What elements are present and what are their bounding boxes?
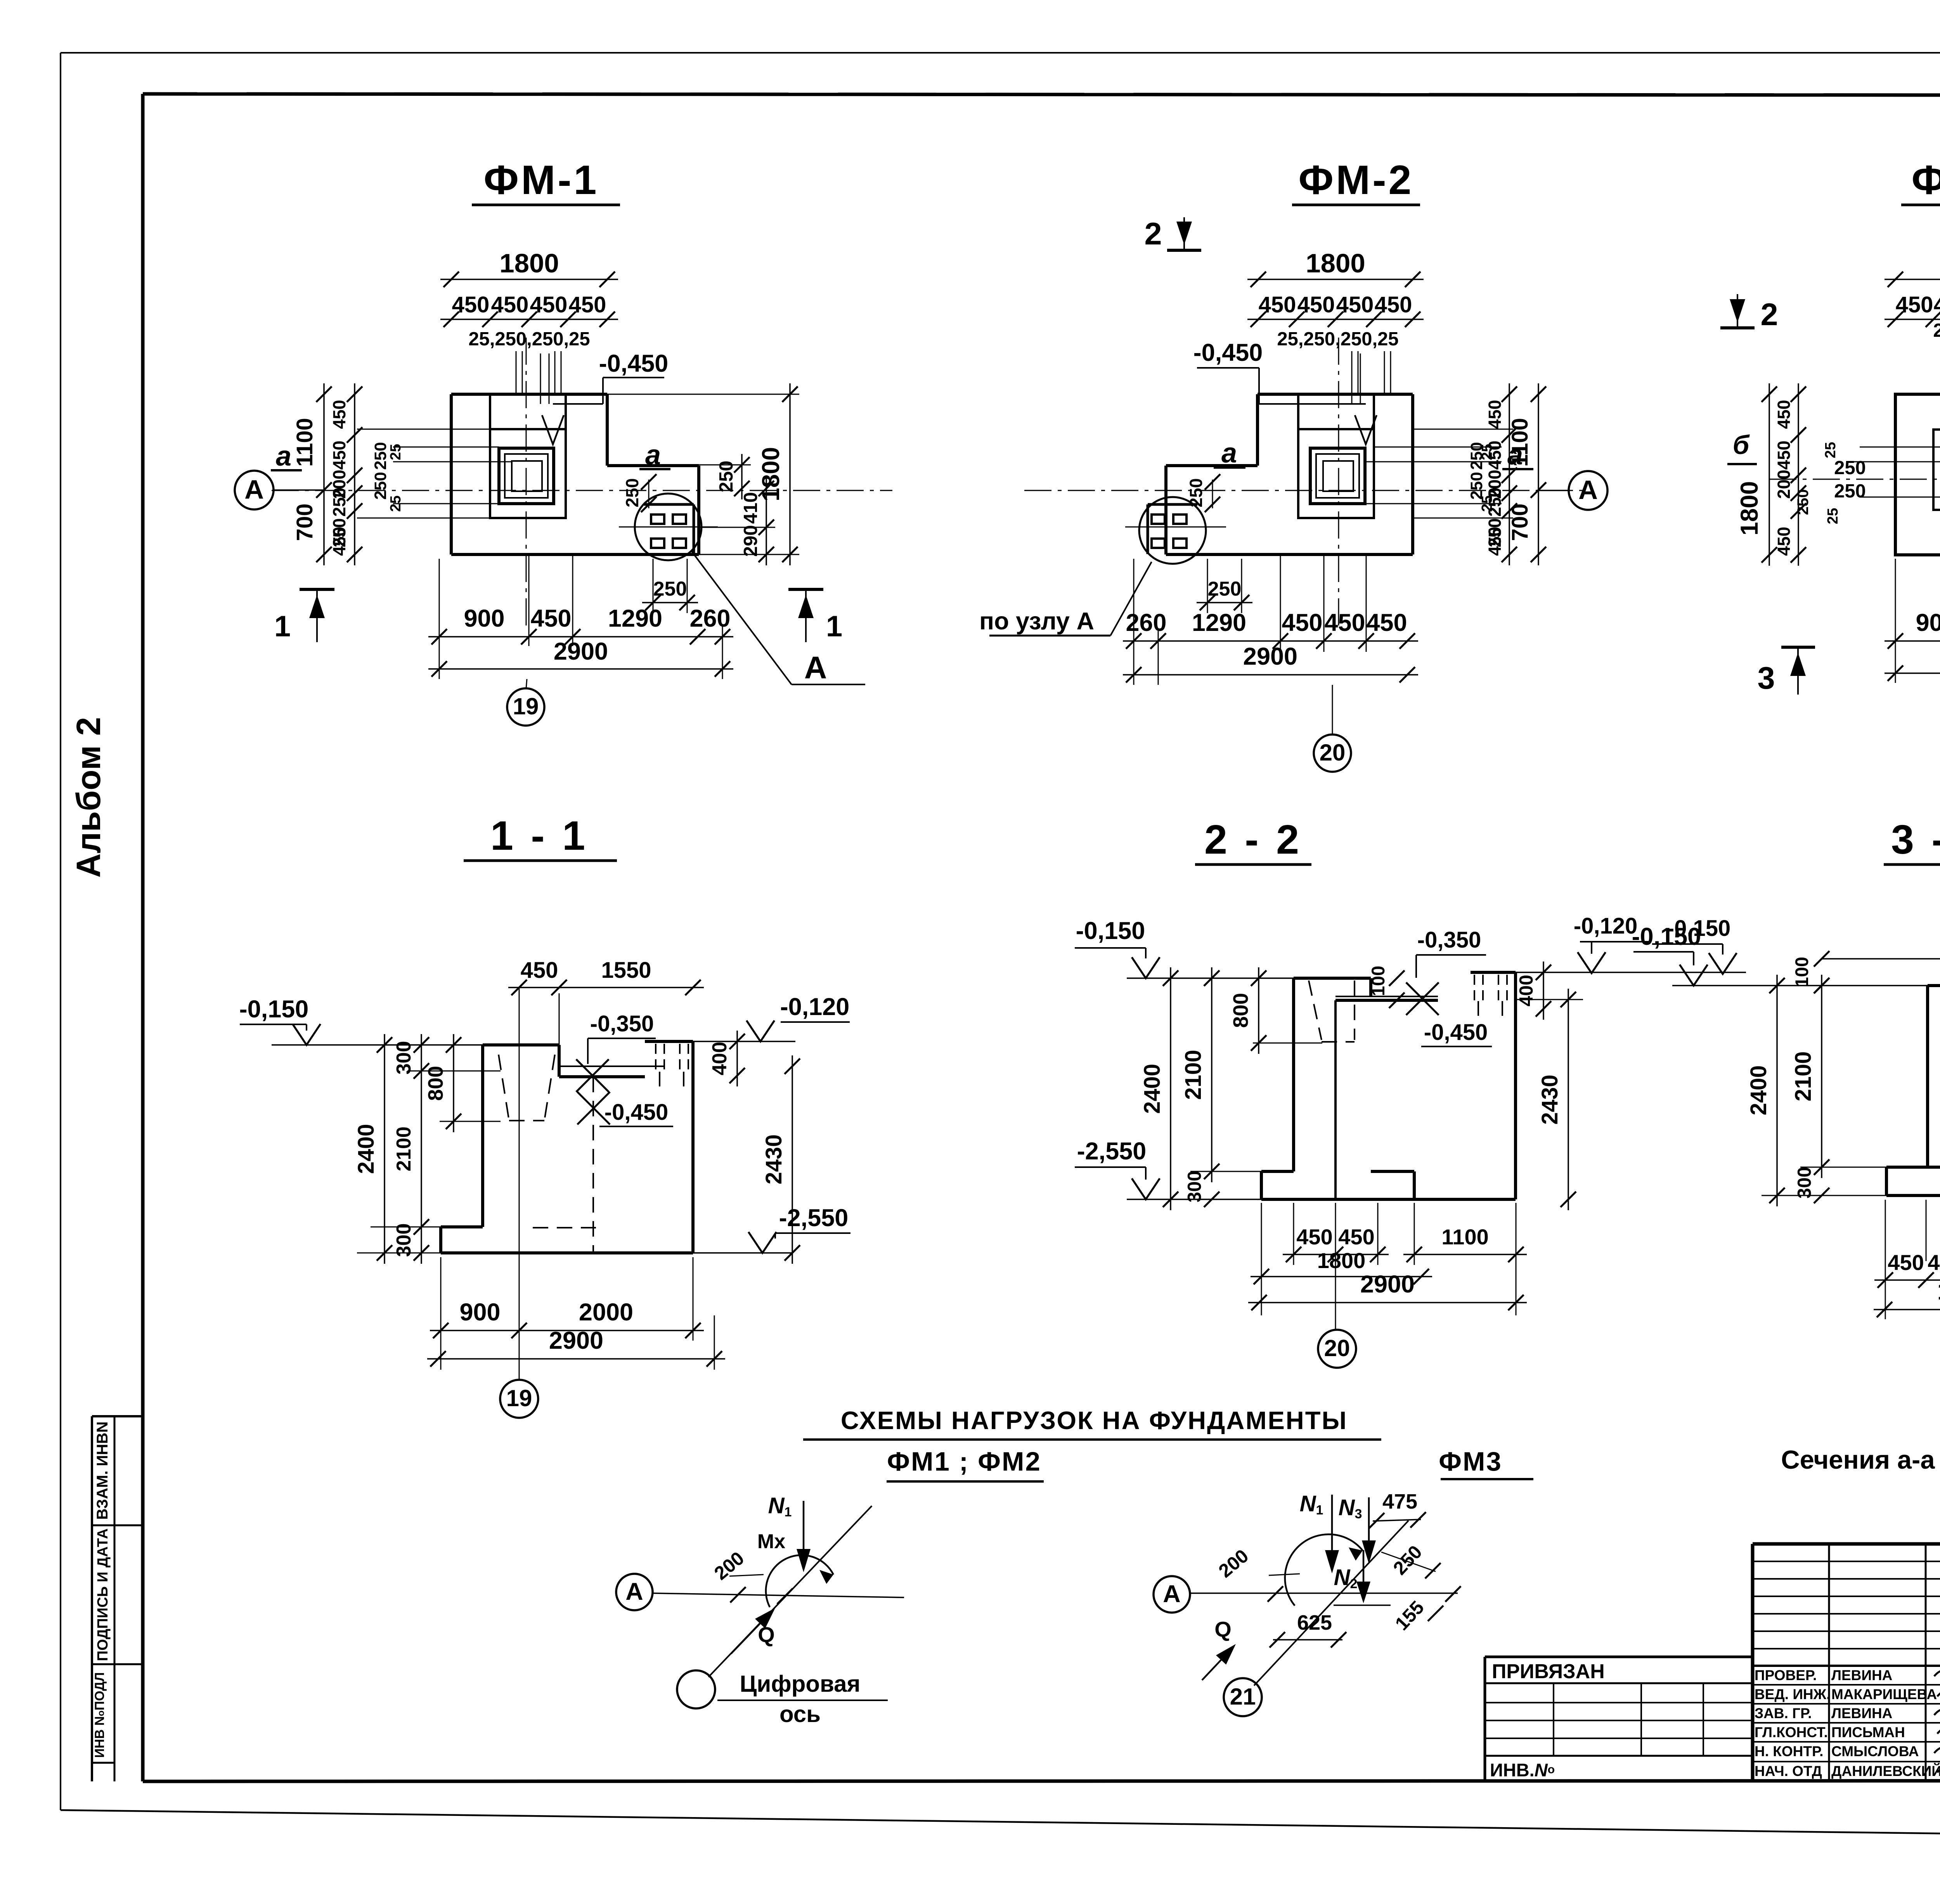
FM-1 axis dash-dot horizontal <box>272 490 892 491</box>
scheme1 digital axis label <box>717 1671 888 1727</box>
svg-text:450: 450 <box>1774 400 1794 429</box>
FM-2 right dim 1100-700 <box>1507 383 1546 565</box>
FM-2 bottom small dim 250 <box>1197 559 1252 613</box>
scheme2 axis circle A <box>1154 1576 1190 1613</box>
svg-text:100: 100 <box>1368 966 1388 996</box>
svg-text:1: 1 <box>826 610 842 643</box>
FM-3 left dim column <box>1774 383 1812 566</box>
svg-text:2100: 2100 <box>1791 1051 1816 1101</box>
svg-text:290: 290 <box>740 525 761 557</box>
FM-3 bottom dim row1 <box>1885 609 1940 649</box>
svg-text:900: 900 <box>459 1299 500 1326</box>
svg-text:25,250,250: 25,250,250 <box>1933 320 1940 341</box>
svg-text:625: 625 <box>1297 1611 1332 1634</box>
svg-text:21: 21 <box>1230 1684 1256 1710</box>
FM-2 section label a left <box>1214 438 1245 469</box>
svg-text:450: 450 <box>1888 1250 1924 1275</box>
FM-1 uzel A dim 250 <box>622 474 656 512</box>
svg-text:250: 250 <box>653 578 687 600</box>
FM-3 top small dims <box>1933 320 1940 394</box>
svg-text:25,250,250,25: 25,250,250,25 <box>1277 329 1398 350</box>
svg-text:N2: N2 <box>1334 1565 1358 1591</box>
svg-text:250: 250 <box>1794 489 1812 515</box>
svg-text:300: 300 <box>393 1041 415 1075</box>
svg-text:25: 25 <box>388 444 404 460</box>
section 2-2 left dims <box>1140 967 1322 1210</box>
FM-2 right small dims <box>1467 442 1495 512</box>
scheme1 force N1 <box>768 1493 811 1572</box>
svg-text:ЗАВ. ГР.: ЗАВ. ГР. <box>1755 1705 1812 1721</box>
svg-text:1800: 1800 <box>1317 1248 1366 1273</box>
svg-text:ИНВ NoПОДЛ: ИНВ NoПОДЛ <box>92 1672 107 1758</box>
svg-text:250: 250 <box>329 487 349 516</box>
svg-text:450: 450 <box>1324 609 1365 636</box>
svg-text:2900: 2900 <box>1360 1271 1415 1298</box>
FM-3 left mid dims <box>1822 442 1866 524</box>
scheme2 aux line <box>1334 1604 1391 1606</box>
section 2-2 stem outline <box>1294 978 1371 1171</box>
scheme2 force N3 <box>1339 1495 1376 1564</box>
section 2-2 dim 400 right <box>1516 962 1551 1020</box>
svg-text:450: 450 <box>1928 1250 1940 1275</box>
svg-text:800: 800 <box>1229 993 1252 1028</box>
svg-text:2430: 2430 <box>761 1134 786 1184</box>
scheme2 force Q <box>1202 1617 1236 1680</box>
stamp strip labels <box>92 1421 111 1758</box>
privyazan labels <box>1490 1660 1605 1780</box>
svg-text:ЛЕВИНА: ЛЕВИНА <box>1831 1667 1892 1683</box>
svg-text:450: 450 <box>1375 292 1412 317</box>
svg-text:-0,450: -0,450 <box>599 350 669 377</box>
FM-1 uzel A sockets <box>619 504 718 554</box>
load scheme FM3 subtitle <box>1439 1447 1533 1479</box>
section 3-3 left dims <box>1746 975 1928 1206</box>
FM-1 top dim 1800 <box>440 248 618 287</box>
section 2-2 axis circle 20 <box>1318 1203 1356 1368</box>
svg-text:СМЫСЛОВА: СМЫСЛОВА <box>1831 1743 1919 1759</box>
svg-text:475: 475 <box>1382 1490 1417 1513</box>
section 1-1 left dims <box>353 1034 501 1264</box>
svg-text:а: а <box>645 440 661 471</box>
FM-2 level mark -0.450 <box>1193 339 1377 444</box>
svg-text:450: 450 <box>1485 400 1505 429</box>
title block outer <box>1753 1544 1940 1781</box>
FM-2 right dim column <box>1485 383 1517 565</box>
FM-3 bottom dim row2 <box>1885 641 1940 681</box>
FM-3 bottom ext lines <box>1895 555 1940 683</box>
section 2-2 top right slab <box>1471 972 1516 1016</box>
svg-text:2: 2 <box>1144 217 1162 251</box>
FM-1 plan outline <box>451 394 699 554</box>
FM-1 section marker 1 left <box>274 589 334 643</box>
section 3-3 level -0.150 <box>1632 923 1928 986</box>
svg-text:100: 100 <box>1791 957 1812 987</box>
svg-text:1100: 1100 <box>1441 1225 1489 1249</box>
section 1-1 pit floor <box>559 1066 665 1077</box>
svg-text:1: 1 <box>274 610 291 643</box>
section 2-2 footing <box>1261 1171 1516 1199</box>
FM-1 left small dims <box>371 442 404 512</box>
svg-text:2100: 2100 <box>1181 1050 1206 1100</box>
section 2-2 level -2.550 <box>1075 1138 1261 1199</box>
svg-text:900: 900 <box>464 605 504 632</box>
svg-text:А: А <box>804 650 827 685</box>
FM-3 middle step rectangle <box>1933 430 1940 510</box>
svg-text:ФМ3: ФМ3 <box>1439 1447 1502 1476</box>
svg-text:3 - 3: 3 - 3 <box>1891 817 1940 863</box>
svg-text:300: 300 <box>393 1223 415 1257</box>
FM-1 right dim 1800 <box>757 383 798 565</box>
left stamp strip boxes <box>92 1416 142 1781</box>
svg-text:200: 200 <box>1774 470 1794 499</box>
FM-2 uzel A circle <box>1139 497 1206 564</box>
svg-text:25: 25 <box>1479 495 1495 512</box>
scheme1 dim 200 <box>710 1548 793 1604</box>
section 2-2 level -0.120 right <box>1574 913 1649 973</box>
section 1-1 right wall <box>691 1041 695 1253</box>
section 1-1 level -0.450 <box>577 1092 673 1126</box>
svg-text:-0,450: -0,450 <box>1424 1020 1488 1045</box>
section 2-2 level -0.150 left <box>1075 917 1294 978</box>
svg-text:450: 450 <box>1297 292 1335 317</box>
svg-text:450: 450 <box>1296 1225 1332 1249</box>
section 2-2 dim 100 <box>1368 966 1405 1008</box>
svg-text:ФМ1 ; ФМ2: ФМ1 ; ФМ2 <box>887 1447 1041 1476</box>
svg-text:20: 20 <box>1324 1335 1350 1361</box>
FM-2 axis circle A right <box>1536 471 1607 510</box>
svg-text:А: А <box>1163 1580 1181 1608</box>
svg-text:25: 25 <box>388 495 404 512</box>
svg-text:А: А <box>1578 475 1598 505</box>
FM-2 column axis vertical <box>1338 338 1339 629</box>
section 2-2 level -0.150 right <box>1516 916 1746 974</box>
FM-1 left dim column <box>329 383 362 565</box>
section 3-3 footing <box>1886 1167 1940 1195</box>
section 1-1 dashed stakan <box>499 1055 555 1121</box>
FM-1 right dim 250 <box>716 454 750 499</box>
svg-text:1290: 1290 <box>1192 609 1246 636</box>
svg-text:2900: 2900 <box>554 638 608 665</box>
svg-text:ЛЕВИНА: ЛЕВИНА <box>1831 1705 1892 1721</box>
load schemes main title <box>803 1406 1381 1440</box>
svg-text:200: 200 <box>710 1548 748 1584</box>
svg-text:-0,150: -0,150 <box>1632 923 1701 950</box>
FM-3 axis dash-dot horizontal <box>1769 479 1940 480</box>
section 2-2 dashed stakan <box>1309 981 1355 1042</box>
svg-text:-0,120: -0,120 <box>1574 913 1637 939</box>
FM-1 uzel A circle <box>635 494 702 560</box>
FM-1 column axis vertical <box>526 338 527 629</box>
FM-3 left dim 1800 <box>1736 383 1777 566</box>
FM-1 bottom ext lines <box>439 554 722 679</box>
section 2-2 level -0.350 <box>1406 927 1486 1015</box>
svg-text:25: 25 <box>1825 508 1841 524</box>
svg-text:3: 3 <box>1757 661 1775 696</box>
FM-2 bottom ext lines <box>1134 554 1366 685</box>
FM-2 uzel dim 250 <box>1186 474 1220 512</box>
svg-text:Цифровая: Цифровая <box>740 1671 861 1697</box>
svg-text:450: 450 <box>491 292 529 317</box>
svg-text:20: 20 <box>1320 740 1346 766</box>
svg-text:Альбом 2: Альбом 2 <box>70 717 107 878</box>
scheme1 axis circle A <box>616 1574 653 1610</box>
svg-text:2430: 2430 <box>1537 1074 1562 1124</box>
svg-text:Мх: Мх <box>757 1530 785 1553</box>
svg-text:450: 450 <box>1366 609 1407 636</box>
scheme1 force Q <box>731 1608 775 1654</box>
section 1-1 bottom dims <box>427 1257 725 1370</box>
section 1-1 top right slab <box>645 1041 693 1086</box>
svg-text:-0,350: -0,350 <box>1417 927 1481 953</box>
scheme1 moment Mx <box>757 1530 833 1607</box>
svg-text:400: 400 <box>1516 975 1537 1007</box>
title block person names <box>1755 1667 1940 1779</box>
FM-3 section marker 3 left <box>1757 647 1815 696</box>
FM-3 top dim 1800 <box>1885 248 1940 287</box>
FM-1 right dim 410-290 <box>740 478 774 565</box>
svg-text:2400: 2400 <box>353 1124 379 1174</box>
scheme2 axis circle 21 <box>1224 1678 1262 1716</box>
FM-1 uzel A leader and label <box>691 551 865 685</box>
svg-text:450: 450 <box>452 292 490 317</box>
svg-text:200: 200 <box>1215 1545 1252 1582</box>
svg-text:б: б <box>1733 430 1750 460</box>
FM-2 top dim 450x4 <box>1247 292 1424 327</box>
FM-2 bottom dim row2 <box>1123 643 1418 683</box>
svg-text:700: 700 <box>1507 504 1533 541</box>
FM-1 bottom dim row1 <box>428 605 733 644</box>
svg-text:250: 250 <box>1186 478 1206 507</box>
svg-text:1800: 1800 <box>499 248 559 278</box>
svg-text:450: 450 <box>1774 527 1794 556</box>
svg-text:Н. КОНТР.: Н. КОНТР. <box>1755 1743 1823 1759</box>
svg-text:ось: ось <box>779 1701 821 1727</box>
svg-text:ГЛ.КОНСТ.: ГЛ.КОНСТ. <box>1755 1724 1828 1740</box>
section 1-1 level -0.120 <box>693 993 850 1041</box>
svg-text:ПОДПИСЬ И ДАТА: ПОДПИСЬ И ДАТА <box>95 1528 111 1661</box>
svg-text:ПРОВЕР.: ПРОВЕР. <box>1755 1667 1817 1683</box>
svg-text:ФМ-1: ФМ-1 <box>483 157 599 203</box>
svg-text:250: 250 <box>622 478 642 507</box>
scheme2 dim 155 <box>1391 1586 1461 1634</box>
svg-text:25: 25 <box>1479 444 1495 460</box>
section 1-1 right dims <box>708 1031 800 1264</box>
scheme2 dim 475 <box>1369 1490 1426 1528</box>
FM-1 section label a left <box>271 441 302 472</box>
svg-text:400: 400 <box>708 1042 731 1076</box>
FM-2 uzel A sockets <box>1125 504 1226 554</box>
svg-text:по узлу А: по узлу А <box>979 608 1094 635</box>
svg-text:1800: 1800 <box>1306 248 1365 278</box>
svg-text:-0,450: -0,450 <box>605 1100 668 1125</box>
FM-3 plan outline <box>1895 394 1940 555</box>
FM-3 inner thin lines <box>1847 447 1940 508</box>
note sections a-a b-b <box>1781 1445 1940 1474</box>
FM-1 column glass <box>499 448 554 504</box>
svg-text:450: 450 <box>1336 292 1374 317</box>
svg-text:А: А <box>625 1578 643 1605</box>
svg-text:ФМ-3: ФМ-3 <box>1911 157 1940 203</box>
svg-text:ФМ-2: ФМ-2 <box>1298 157 1413 203</box>
svg-text:МАКАРИЩЕВА: МАКАРИЩЕВА <box>1831 1686 1937 1702</box>
FM-2 section marker 2 left <box>1144 217 1201 251</box>
svg-text:155: 155 <box>1391 1597 1428 1635</box>
FM-2 section marker 2 right <box>1720 294 1778 332</box>
FM-2 bottom dim row1 <box>1123 609 1418 649</box>
section 1-1 title <box>464 813 617 861</box>
svg-text:250: 250 <box>1834 457 1866 478</box>
section 1-1 level -2.550 <box>693 1204 850 1253</box>
title block person row lines <box>1753 1685 1940 1762</box>
svg-text:450: 450 <box>530 605 571 632</box>
FM-1 axis circle A <box>235 471 324 509</box>
svg-text:260: 260 <box>689 605 730 632</box>
section 2-2 inner vertical <box>1334 1000 1337 1199</box>
svg-text:2400: 2400 <box>1140 1064 1165 1114</box>
FM-1 bottom small dim 250 <box>642 559 698 613</box>
svg-text:Q: Q <box>1214 1617 1232 1641</box>
svg-text:450: 450 <box>530 292 568 317</box>
FM-2 top dim 1800 <box>1247 248 1424 287</box>
svg-text:ПРИВЯЗАН: ПРИВЯЗАН <box>1492 1660 1605 1683</box>
section 1-1 level -0.150 <box>239 996 483 1045</box>
svg-text:250: 250 <box>1208 578 1242 600</box>
section 1-1 axis line <box>519 988 520 1380</box>
svg-text:450: 450 <box>1259 292 1296 317</box>
section 1-1 footing <box>441 1227 693 1253</box>
FM-1 top dim 450x4 <box>440 292 618 327</box>
section 2-2 pit floor <box>1335 996 1438 1000</box>
svg-text:НАЧ. ОТД: НАЧ. ОТД <box>1755 1763 1822 1779</box>
FM-1 left dim 1100-700 <box>292 383 332 565</box>
svg-text:1550: 1550 <box>601 958 651 983</box>
FM-1 middle step rectangle <box>490 394 566 518</box>
svg-text:300: 300 <box>1794 1167 1815 1199</box>
svg-text:1 - 1: 1 - 1 <box>490 813 588 859</box>
svg-text:ПИСЬМАН: ПИСЬМАН <box>1831 1724 1905 1740</box>
FM-1 title <box>472 157 620 205</box>
section 2-2 dim 2430 right <box>1516 989 1583 1210</box>
svg-text:700: 700 <box>292 504 317 541</box>
svg-text:а: а <box>276 441 291 472</box>
svg-text:250: 250 <box>371 442 390 470</box>
svg-text:250: 250 <box>371 472 390 500</box>
svg-text:25: 25 <box>1822 442 1839 458</box>
section 3-3 title <box>1884 817 1940 865</box>
svg-text:2900: 2900 <box>1243 643 1297 670</box>
svg-text:250: 250 <box>1389 1542 1426 1579</box>
section 1-1 stem outline <box>483 1045 559 1227</box>
svg-text:Сечения а-а и б-б см. ли: Сечения а-а и б-б см. лист 10 <box>1781 1445 1940 1474</box>
svg-text:2 - 2: 2 - 2 <box>1204 817 1302 863</box>
FM-1 section marker 1 right <box>788 589 842 643</box>
FM-2 axis dash-dot horizontal <box>1024 490 1587 491</box>
FM-2 inner thin lines <box>1365 429 1513 518</box>
load scheme FM1 FM2 subtitle <box>887 1447 1044 1481</box>
FM-3 section label b left <box>1727 430 1757 464</box>
scheme1 digital axis circle <box>677 1670 715 1708</box>
FM-2 title <box>1292 157 1420 205</box>
svg-text:25,250,250,25: 25,250,250,25 <box>468 329 590 350</box>
scheme2 moment Mx <box>1285 1534 1363 1606</box>
section 2-2 level -0.450 <box>1421 1020 1492 1046</box>
svg-text:450: 450 <box>1282 609 1322 636</box>
scheme2 dim 625 <box>1270 1611 1346 1648</box>
FM-2 top small dims <box>1277 329 1398 394</box>
svg-text:450: 450 <box>1774 440 1794 470</box>
FM-2 section label a right <box>1502 440 1533 471</box>
section 1-1 axis circle 19 <box>500 1380 538 1418</box>
scheme2 diagonal line <box>1254 1521 1408 1686</box>
FM-2 middle step rectangle <box>1298 394 1374 518</box>
svg-text:ДАНИЛЕВСКИЙ: ДАНИЛЕВСКИЙ <box>1831 1763 1940 1779</box>
svg-text:1100: 1100 <box>292 418 317 467</box>
svg-text:2400: 2400 <box>1746 1065 1771 1115</box>
FM-2 axis circle 20 <box>1314 685 1351 772</box>
FM-1 level mark -0.450 <box>540 350 668 444</box>
svg-text:450: 450 <box>521 958 558 983</box>
svg-text:Q: Q <box>758 1622 775 1647</box>
FM-3 top dim 450 450 900 <box>1885 292 1940 327</box>
svg-text:-0,150: -0,150 <box>239 996 309 1023</box>
svg-text:а: а <box>1221 438 1237 469</box>
scheme2 axis line <box>1190 1592 1458 1594</box>
svg-text:1800: 1800 <box>757 447 785 501</box>
svg-text:N3: N3 <box>1339 1495 1362 1521</box>
svg-text:-0,350: -0,350 <box>590 1011 654 1036</box>
svg-text:300: 300 <box>1184 1171 1205 1202</box>
svg-text:2000: 2000 <box>579 1299 633 1326</box>
FM-1 right ext lines <box>607 394 799 554</box>
section 2-2 bottom dims <box>1248 1203 1527 1315</box>
svg-text:-0,450: -0,450 <box>1193 339 1263 366</box>
svg-text:260: 260 <box>1126 609 1166 636</box>
svg-text:СХЕМЫ НАГРУЗОК НА ФУНДАМЕ: СХЕМЫ НАГРУЗОК НА ФУНДАМЕНТЫ <box>841 1406 1348 1434</box>
svg-text:ВЗАМ. ИНВN: ВЗАМ. ИНВN <box>94 1421 111 1519</box>
FM-3 title <box>1901 157 1940 205</box>
svg-text:19: 19 <box>513 693 539 719</box>
svg-text:450: 450 <box>329 440 349 470</box>
scheme2 dim 200 <box>1215 1545 1300 1602</box>
svg-text:А: А <box>244 475 264 504</box>
scheme1 axis line <box>653 1593 904 1597</box>
svg-text:1290: 1290 <box>608 605 662 632</box>
section 1-1 level -0.350 <box>576 1011 656 1092</box>
svg-text:ВЕД. ИНЖ.: ВЕД. ИНЖ. <box>1755 1686 1830 1702</box>
section 2-2 right wall <box>1514 972 1517 1199</box>
FM-1 section label a right <box>639 440 670 471</box>
svg-text:450: 450 <box>1485 527 1505 556</box>
svg-text:450: 450 <box>569 292 606 317</box>
FM-1 inner thin lines <box>357 429 554 518</box>
scheme2 force N2 <box>1334 1550 1370 1603</box>
scheme2 force N1 <box>1300 1491 1339 1573</box>
svg-text:900: 900 <box>1916 609 1940 636</box>
svg-text:-2,550: -2,550 <box>1077 1138 1147 1165</box>
svg-text:1100: 1100 <box>1507 418 1533 467</box>
album label <box>70 717 107 878</box>
FM-1 top small dims 25 250 250 25 <box>468 329 590 394</box>
svg-text:450: 450 <box>1934 292 1940 317</box>
svg-text:450: 450 <box>1896 292 1933 317</box>
FM-2 plan outline <box>1166 394 1413 554</box>
svg-text:2900: 2900 <box>549 1327 603 1354</box>
scheme1 digital axis line <box>708 1506 872 1677</box>
svg-text:-0,150: -0,150 <box>1076 917 1145 944</box>
section 3-3 top aux dim 100 <box>1791 951 1940 993</box>
svg-text:1800: 1800 <box>1937 1278 1940 1305</box>
FM-1 bottom dim row2 <box>428 638 733 677</box>
